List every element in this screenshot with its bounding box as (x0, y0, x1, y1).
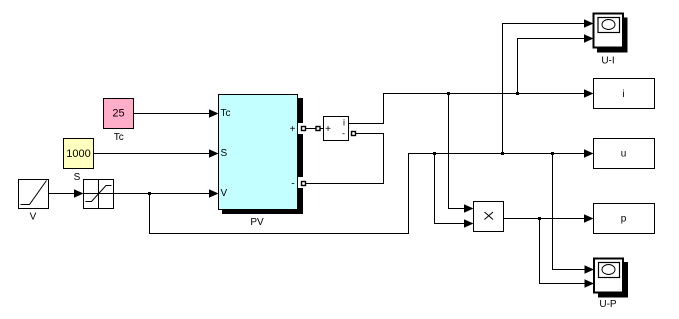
svg-text:V: V (30, 212, 37, 223)
svg-text:u: u (621, 149, 627, 160)
svg-text:V: V (221, 188, 228, 199)
wire: i line down to product input 1 (449, 94, 474, 213)
svg-text:Tc: Tc (114, 132, 124, 143)
PV subsystem shadow (222, 98, 303, 214)
svg-text:Tc: Tc (221, 108, 231, 119)
wire: u line down to U-P scope input 1 (553, 154, 595, 274)
U-P scope (XY graph) (594, 259, 623, 311)
svg-text:-: - (342, 129, 345, 139)
junction on i line (to U-I scope) (516, 92, 519, 95)
svg-text:PV: PV (250, 217, 264, 228)
U-I scope shadow (597, 18, 628, 53)
PV subsystem block (219, 95, 298, 229)
wire: 25 to PV Tc input (134, 109, 219, 118)
wire: V junction down and right to u node (voltage feed) (150, 149, 594, 233)
outport block u (594, 139, 655, 169)
svg-text:p: p (621, 214, 627, 225)
svg-text:+: + (290, 124, 296, 135)
outport block i (594, 79, 655, 109)
current measurement block U1 (324, 117, 349, 141)
product block (multiplier) (474, 202, 504, 232)
junction on u line (to U-P scope) (551, 152, 554, 155)
svg-text:U-P: U-P (599, 299, 617, 310)
saturation block (84, 180, 114, 209)
ramp source V (19, 180, 49, 223)
svg-text:1000: 1000 (66, 148, 90, 160)
wire: current measurement - back to PV - terminal (304, 134, 384, 184)
wire: saturation to PV V input (114, 189, 219, 198)
svg-text:i: i (343, 118, 345, 128)
svg-text:U-I: U-I (601, 56, 614, 67)
constant block 1000 (S) (64, 139, 94, 184)
arrow into outport i (584, 89, 594, 98)
wire: p line down to U-P scope input 2 (540, 219, 595, 288)
svg-text:-: - (291, 179, 294, 190)
wire: ramp V to saturation (49, 189, 84, 198)
junction on p line (to U-P scope) (538, 217, 541, 220)
svg-text:S: S (74, 172, 81, 183)
wire: u line down to product input 2 (435, 154, 474, 228)
U-P scope shadow (598, 262, 628, 298)
wire: i line up to U-I scope input 2 (518, 34, 594, 93)
port square: current measurement - (352, 132, 356, 136)
port square: current measurement + (316, 127, 320, 131)
wire: current measurement i output to i line (349, 94, 590, 124)
port square: PV - (302, 182, 306, 186)
svg-text:+: + (325, 124, 331, 135)
outport block p (594, 204, 655, 234)
junction on u line (to product) (433, 152, 436, 155)
junction on u line (to U-I scope) (501, 152, 504, 155)
svg-text:i: i (622, 89, 624, 100)
port square: PV + (302, 127, 306, 131)
wire: u line up to U-I scope input 1 (503, 19, 594, 153)
wire: PV + terminal to current measurement (304, 128, 324, 130)
wire: product output to outport p (504, 214, 594, 223)
svg-text:S: S (221, 148, 228, 159)
U-I scope (XY graph) (594, 14, 624, 67)
junction on i line (to product) (447, 92, 450, 95)
junction on V wire (148, 192, 151, 195)
svg-text:25: 25 (112, 108, 124, 120)
wire: 1000 to PV S input (94, 149, 219, 158)
constant block 25 (Tc) (104, 99, 134, 143)
